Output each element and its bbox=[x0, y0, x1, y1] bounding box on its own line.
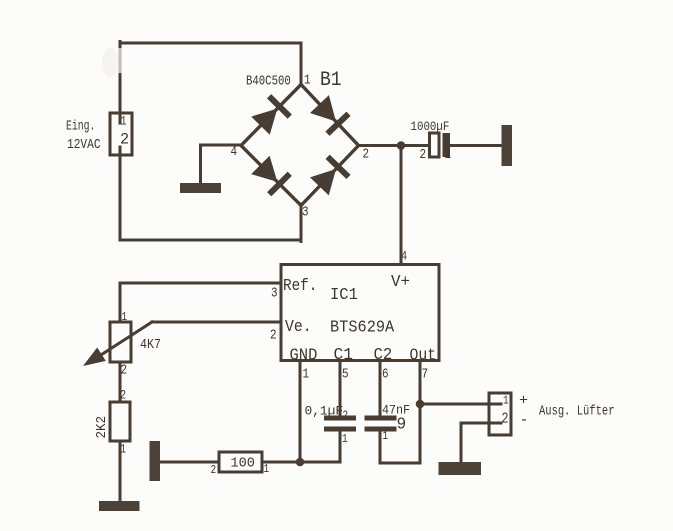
ground symbol right of 1000uF bbox=[502, 125, 513, 166]
wire X2 pin 2 down to ground bbox=[460, 423, 463, 462]
svg-text:1: 1 bbox=[120, 442, 126, 456]
svg-text:2: 2 bbox=[502, 411, 509, 428]
ground symbol below R 2K2 bbox=[99, 501, 140, 511]
scan artifact smudge bbox=[102, 47, 118, 77]
svg-text:0,1µF: 0,1µF bbox=[305, 403, 344, 418]
svg-text:2: 2 bbox=[211, 464, 217, 477]
wire X1 pin 2 down bbox=[119, 147, 122, 240]
svg-text:B40C500: B40C500 bbox=[246, 73, 291, 89]
diode B1 arm 4-3 bbox=[250, 155, 292, 197]
svg-text:V+: V+ bbox=[391, 272, 410, 292]
wire IC1 pin 1 GND down bbox=[299, 362, 302, 462]
svg-text:1: 1 bbox=[121, 114, 127, 128]
junction node at GND net bbox=[296, 458, 305, 467]
wire R 2K2 pin 1 down to ground bbox=[119, 441, 122, 501]
wire from top wire down to bridge node 1 bbox=[300, 43, 303, 85]
wire Out junction to connector X2 pin 1 bbox=[420, 403, 501, 406]
diode B1 arm 3-2 bbox=[309, 155, 351, 197]
svg-text:BTS629A: BTS629A bbox=[330, 318, 394, 337]
svg-text:2: 2 bbox=[420, 147, 427, 163]
svg-text:-: - bbox=[520, 412, 529, 429]
svg-text:Eing.: Eing. bbox=[66, 118, 95, 134]
capacitor 1000uF left plate (pin 2) bbox=[430, 133, 440, 157]
svg-text:3: 3 bbox=[302, 204, 309, 220]
wire bridge node 4 to ground stem bbox=[201, 144, 242, 147]
wire IC1 pin 3 Ref to potentiometer top bbox=[120, 282, 281, 285]
svg-text:+: + bbox=[519, 393, 528, 410]
connector X1 Eing. 12VAC bbox=[110, 113, 132, 155]
connector X2 Ausg. Luefter bbox=[489, 393, 511, 435]
svg-text:100: 100 bbox=[231, 456, 255, 471]
diode B1 arm 4-1 bbox=[250, 94, 292, 136]
wire vertical up to bridge node 3 bbox=[300, 204, 303, 242]
capacitor 0,1uF plates bbox=[324, 416, 356, 432]
potentiometer wiper arrowhead bbox=[83, 348, 106, 367]
svg-text:1: 1 bbox=[122, 311, 128, 324]
capacitor 1000uF right plate (pin 1) bbox=[443, 133, 451, 157]
svg-text:Out: Out bbox=[410, 346, 437, 365]
svg-text:Ve.: Ve. bbox=[285, 317, 312, 336]
wire bottom horizontal from X1 pin2 to bridge node 3 bbox=[120, 239, 301, 242]
svg-text:1000µF: 1000µF bbox=[411, 119, 450, 134]
bridge rectifier B1 diamond outline bbox=[241, 85, 359, 206]
svg-text:2: 2 bbox=[120, 388, 126, 402]
wire ground stem vertical at bridge bbox=[199, 145, 202, 183]
svg-text:5: 5 bbox=[342, 366, 349, 382]
wire bridge node 2 to capacitor C? left plate bbox=[359, 144, 430, 147]
wire ground to R 100 pin 2 bbox=[160, 461, 219, 464]
wire capacitor right plate to ground bbox=[450, 144, 502, 147]
svg-text:4: 4 bbox=[401, 249, 407, 263]
capacitor 47nF plates bbox=[365, 416, 397, 432]
svg-text:6: 6 bbox=[382, 366, 389, 382]
ground symbol at bridge node 4 bbox=[180, 183, 221, 193]
wire potentiometer pin 2 down to R 2K2 bbox=[119, 362, 122, 402]
junction node at Out net bbox=[416, 400, 425, 409]
svg-text:12VAC: 12VAC bbox=[67, 136, 101, 153]
svg-text:C2: C2 bbox=[374, 344, 393, 364]
svg-text:C1: C1 bbox=[334, 345, 353, 364]
svg-text:1: 1 bbox=[342, 433, 348, 446]
svg-text:1: 1 bbox=[303, 366, 310, 382]
svg-text:B1: B1 bbox=[320, 68, 342, 91]
potentiometer R 4K7 body bbox=[110, 322, 131, 362]
wire R 100 pin 1 to GND junction bbox=[262, 461, 300, 464]
wire top horizontal net from X1 pin1 to bridge node 1 bbox=[120, 42, 301, 45]
svg-text:IC1: IC1 bbox=[330, 284, 358, 304]
svg-text:Ausg. Lüfter: Ausg. Lüfter bbox=[539, 403, 615, 419]
svg-text:1: 1 bbox=[264, 463, 270, 476]
wire connector X2 pin 2 stub bbox=[461, 422, 501, 425]
svg-text:1: 1 bbox=[383, 430, 389, 443]
svg-text:2: 2 bbox=[270, 327, 277, 343]
resistor R 100 body bbox=[219, 452, 262, 472]
wire left vertical from top wire down to connector X1 pin 1 bbox=[119, 42, 122, 124]
svg-text:2K2: 2K2 bbox=[94, 416, 110, 439]
svg-text:GND: GND bbox=[290, 345, 318, 365]
ground symbol left of R 100 bbox=[150, 441, 161, 481]
svg-text:9: 9 bbox=[397, 414, 407, 433]
svg-text:2: 2 bbox=[363, 146, 370, 162]
wire junction to C 0.1uF bottom bbox=[300, 432, 340, 463]
diode B1 arm 1-2 bbox=[309, 94, 351, 136]
ground symbol below X2 bbox=[439, 462, 482, 475]
op-amp IC1 BTS629A box bbox=[281, 265, 439, 361]
junction node at V+ takeoff bbox=[397, 141, 406, 150]
svg-text:2: 2 bbox=[343, 410, 349, 423]
wire V+ vertical from node to IC1 pin 4 bbox=[400, 146, 403, 265]
wire IC1 pin 7 Out down bbox=[419, 362, 422, 463]
wire vertical down to potentiometer pin 1 bbox=[119, 283, 122, 322]
svg-text:1: 1 bbox=[304, 72, 311, 88]
scan artifact gray fade on left vertical wire bbox=[118, 48, 121, 73]
resistor R 2K2 body bbox=[110, 402, 130, 441]
wire wiper diagonal of R 4K7 bbox=[97, 322, 152, 358]
svg-text:3: 3 bbox=[271, 285, 278, 301]
svg-text:2: 2 bbox=[121, 362, 128, 378]
svg-text:Ref.: Ref. bbox=[283, 276, 317, 295]
wire IC1 pin 2 Ve to potentiometer wiper bbox=[152, 321, 281, 324]
svg-text:2: 2 bbox=[120, 130, 129, 148]
svg-text:7: 7 bbox=[422, 366, 429, 382]
svg-text:1: 1 bbox=[503, 395, 509, 408]
wire IC1 pin 6 C2 down to capacitor bbox=[379, 362, 382, 416]
svg-text:1: 1 bbox=[445, 147, 452, 163]
svg-text:4: 4 bbox=[231, 144, 238, 160]
svg-text:4K7: 4K7 bbox=[140, 336, 161, 352]
wire C 47nF bottom to Out net bbox=[380, 432, 420, 464]
wire IC1 pin 5 C1 down to capacitor bbox=[339, 362, 342, 416]
